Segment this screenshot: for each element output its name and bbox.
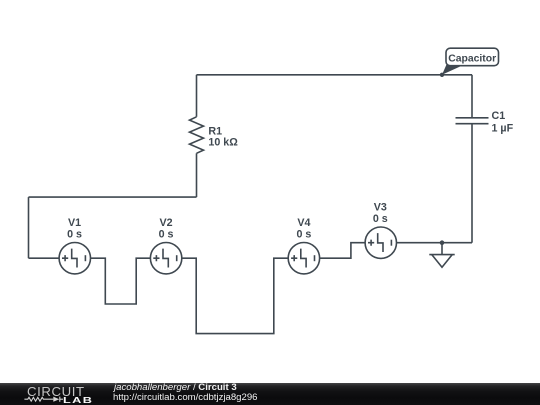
label V4 value — [296, 217, 311, 241]
svg-text:C1: C1 — [492, 110, 506, 122]
svg-text:V1: V1 — [68, 217, 81, 229]
voltage source V4 — [288, 243, 319, 274]
wire right vertical to C1 — [471, 75, 473, 118]
svg-text:0 s: 0 s — [373, 213, 388, 225]
label V1 value — [67, 217, 82, 241]
label V2 value — [159, 217, 174, 241]
svg-text:0 s: 0 s — [159, 229, 174, 241]
wire jog V1 to V2 — [91, 258, 151, 304]
wire left vertical — [28, 197, 30, 258]
svg-text:0 s: 0 s — [296, 229, 311, 241]
node junction dot at ground — [440, 240, 445, 245]
svg-text:Capacitor: Capacitor — [448, 53, 496, 64]
capacitor C1 — [456, 118, 489, 124]
wire V3 to right corner — [397, 242, 473, 244]
label R1 value — [208, 125, 238, 148]
resistor R1 — [190, 75, 204, 197]
svg-text:V4: V4 — [297, 217, 310, 229]
voltage source V3 — [365, 227, 396, 258]
wire into V1 — [29, 257, 60, 259]
footer url text — [113, 392, 258, 403]
label C1 value — [492, 110, 514, 135]
svg-text:R1: R1 — [208, 125, 222, 137]
node callout Capacitor — [440, 48, 499, 77]
footer bar — [0, 383, 540, 405]
label V3 value — [373, 201, 388, 225]
svg-text:0 s: 0 s — [67, 229, 82, 241]
wire bottom-left horizontal — [29, 196, 197, 198]
wire jog V2 to V4 — [182, 258, 288, 333]
voltage source V1 — [59, 243, 90, 274]
CircuitLab logo — [27, 384, 85, 399]
wire top horizontal — [197, 74, 473, 76]
voltage source V2 — [150, 243, 181, 274]
wire C1 bottom to node row — [471, 124, 473, 243]
ground — [429, 243, 454, 268]
footer title text — [114, 382, 237, 393]
svg-text:V3: V3 — [374, 201, 387, 213]
svg-text:V2: V2 — [159, 217, 172, 229]
CircuitLab logo schematic glyph — [0, 383, 110, 405]
svg-text:1 µF: 1 µF — [492, 122, 514, 134]
wire jog V4 to V3 — [320, 243, 366, 259]
svg-text:10 kΩ: 10 kΩ — [208, 137, 238, 149]
